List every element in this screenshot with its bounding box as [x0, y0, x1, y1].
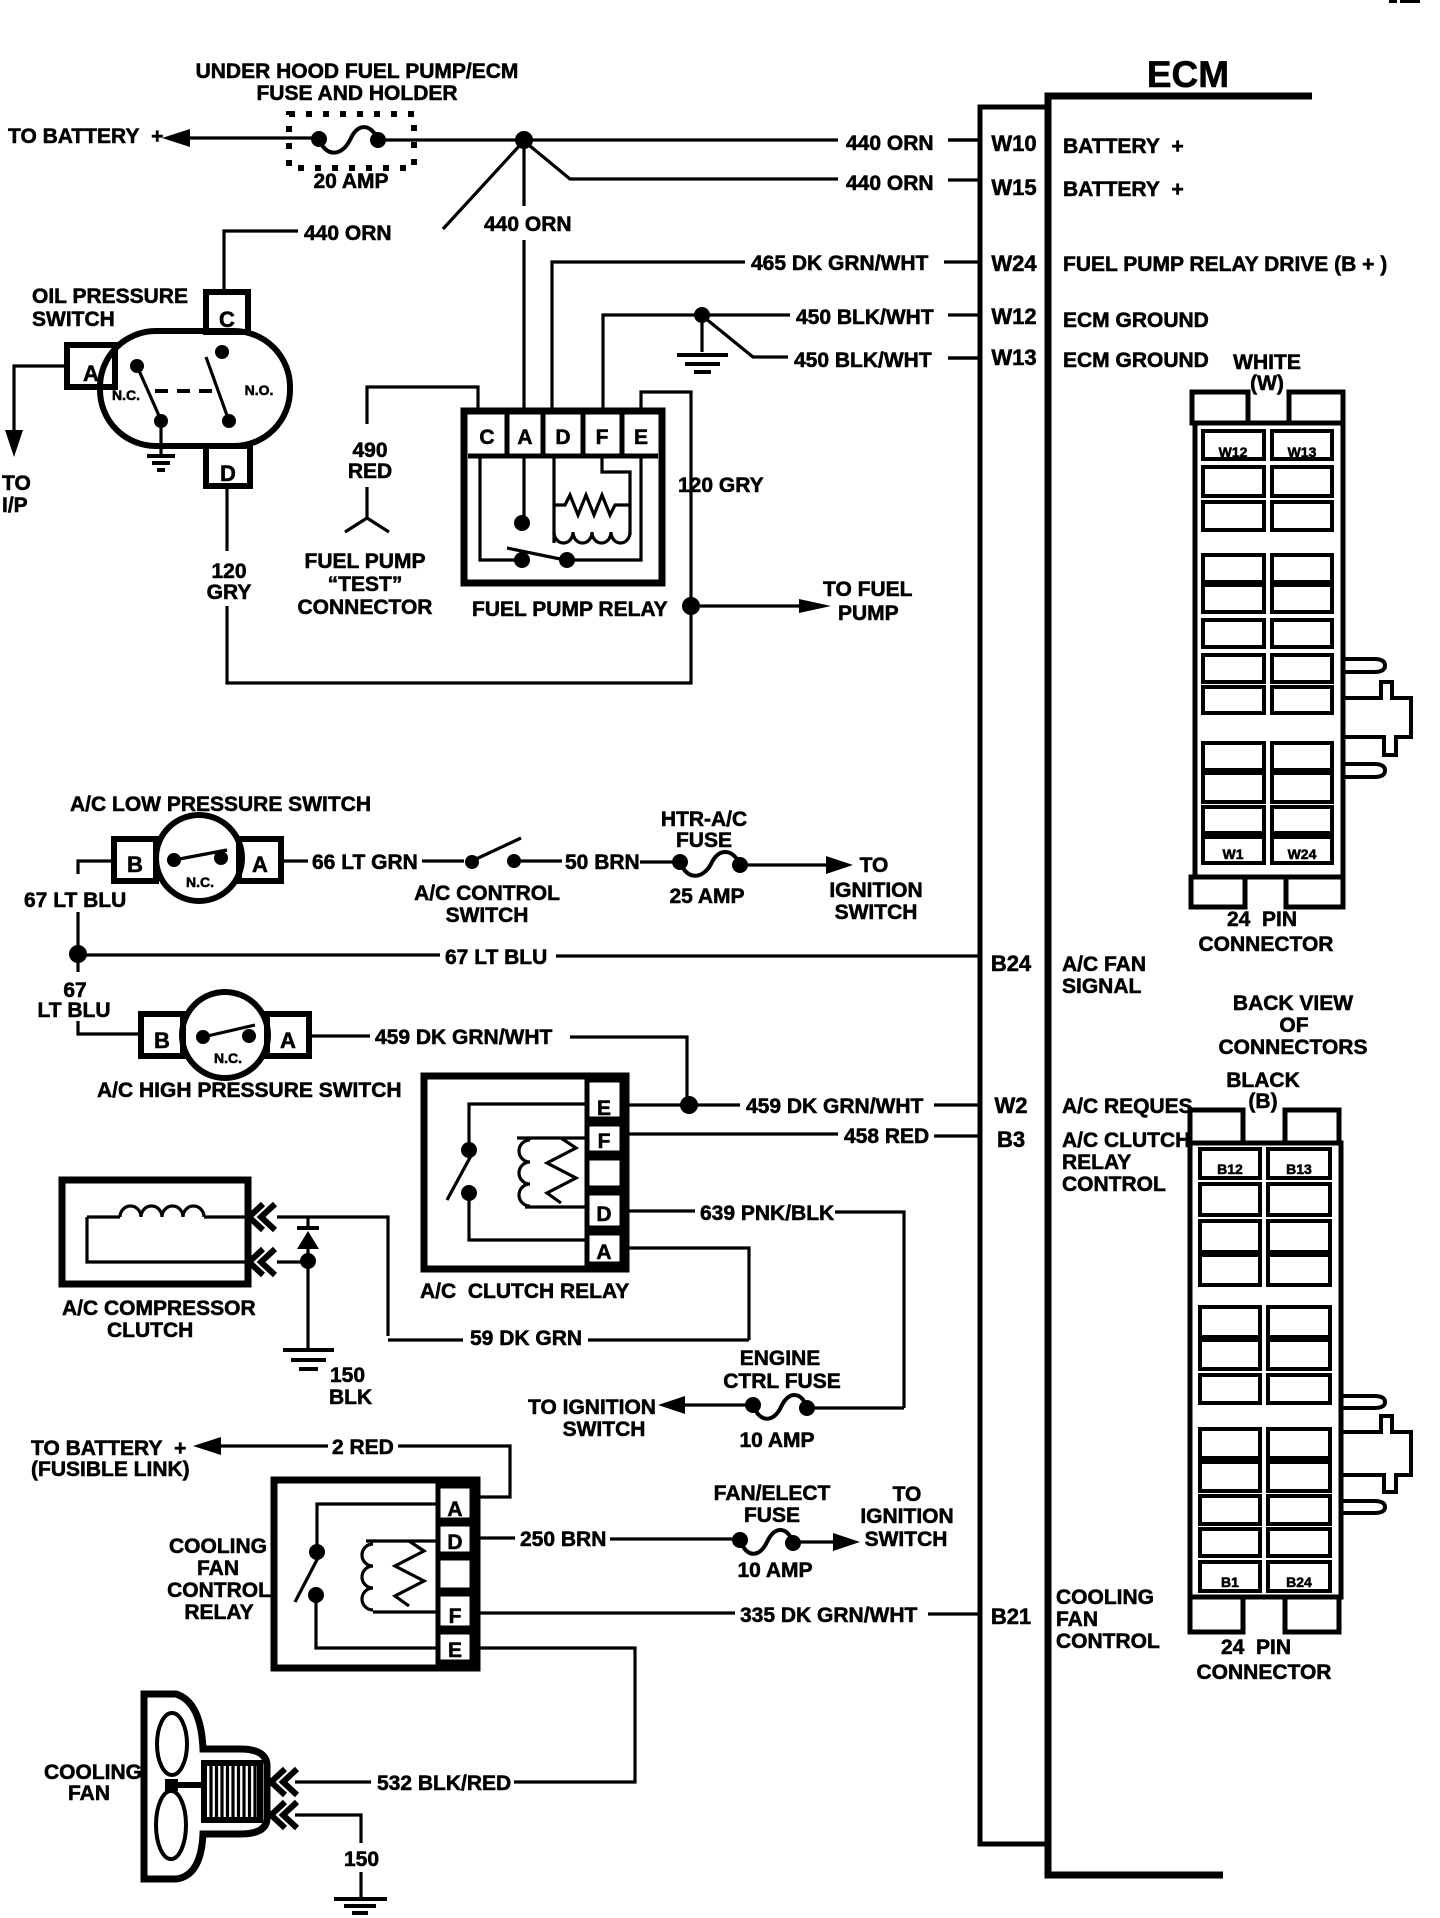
high switch terminal A: [267, 1014, 309, 1056]
svg-text:COOLING: COOLING: [44, 1761, 142, 1784]
wire 459 DK GRN/WHT from high switch A: [309, 1026, 687, 1098]
svg-text:A: A: [596, 1241, 611, 1264]
white connector pin W13 cell: [1272, 431, 1332, 460]
label 67 LT BLU (second): [37, 979, 110, 1022]
black connector empty cells: [1200, 1184, 1330, 1556]
svg-text:A/C CLUTCH: A/C CLUTCH: [1062, 1129, 1190, 1152]
svg-text:120: 120: [211, 560, 246, 583]
white connector pin W24 cell: [1272, 837, 1332, 863]
wire 532 BLK/RED from relay E: [295, 1648, 635, 1795]
svg-text:W1: W1: [1223, 846, 1244, 862]
wire 59 DK GRN from relay A: [388, 1248, 749, 1350]
svg-text:CLUTCH: CLUTCH: [107, 1319, 193, 1342]
svg-text:67 LT BLU: 67 LT BLU: [24, 889, 126, 912]
svg-text:ECM GROUND: ECM GROUND: [1063, 309, 1209, 332]
pin W2: [995, 1093, 1193, 1118]
svg-text:N.C.: N.C.: [214, 1050, 242, 1066]
svg-text:“TEST”: “TEST”: [328, 573, 403, 596]
white connector bottom tabs: [1191, 877, 1343, 907]
svg-text:B3: B3: [997, 1127, 1025, 1152]
svg-text:FUSE: FUSE: [744, 1504, 800, 1527]
black connector label: [1226, 1069, 1300, 1113]
A/C high pressure switch body: [182, 992, 268, 1078]
svg-text:B24: B24: [1286, 1574, 1312, 1590]
fan relay terminal A: [438, 1486, 472, 1521]
fan relay coil and resistor: [362, 1541, 438, 1612]
svg-text:CONTROL: CONTROL: [1056, 1630, 1160, 1653]
svg-text:SWITCH: SWITCH: [32, 308, 115, 331]
svg-text:335 DK GRN/WHT: 335 DK GRN/WHT: [740, 1604, 918, 1627]
ground G3: [334, 1899, 387, 1913]
svg-text:450 BLK/WHT: 450 BLK/WHT: [794, 349, 932, 372]
cooling fan blade upper: [157, 1713, 187, 1775]
A/C control switch: [414, 838, 562, 927]
svg-text:TO BATTERY +: TO BATTERY +: [8, 125, 163, 148]
wire 465 DK GRN/WHT relay D to W24: [552, 252, 929, 411]
node J6: [300, 1253, 316, 1269]
svg-text:E: E: [634, 426, 648, 449]
svg-text:ENGINE: ENGINE: [740, 1347, 821, 1370]
black connector pin B24 cell: [1268, 1562, 1330, 1591]
cooling fan hub: [165, 1779, 204, 1791]
svg-text:440 ORN: 440 ORN: [304, 222, 392, 245]
white connector top tabs: [1192, 392, 1343, 423]
fan relay terminal F: [438, 1594, 472, 1628]
A/C clutch relay terminal A: [587, 1233, 622, 1264]
svg-text:TO FUEL: TO FUEL: [823, 578, 913, 601]
svg-text:CTRL FUSE: CTRL FUSE: [723, 1370, 840, 1393]
svg-text:IGNITION: IGNITION: [860, 1505, 953, 1528]
wire 440 ORN branch to oil switch C: [224, 144, 521, 290]
oil switch terminal C: [206, 292, 248, 332]
A/C compressor clutch box: [62, 1180, 248, 1284]
pin B21: [991, 1586, 1160, 1653]
low switch terminal A: [239, 839, 281, 881]
svg-text:(B): (B): [1248, 1090, 1277, 1113]
svg-text:LT BLU: LT BLU: [37, 999, 110, 1022]
svg-text:W15: W15: [991, 175, 1036, 200]
svg-text:D: D: [596, 1203, 611, 1226]
white connector label: [1233, 351, 1301, 395]
svg-text:FUSE: FUSE: [676, 829, 732, 852]
wire 67 LT BLU to B24: [85, 946, 980, 969]
svg-text:E: E: [448, 1639, 462, 1662]
svg-text:150: 150: [344, 1848, 379, 1871]
black connector top tabs: [1190, 1110, 1339, 1143]
wire 440 ORN to W15: [524, 141, 934, 195]
svg-text:440 ORN: 440 ORN: [484, 213, 572, 236]
svg-text:FAN/ELECT: FAN/ELECT: [714, 1482, 831, 1505]
oil switch internal contacts: [112, 345, 273, 428]
svg-text:TO: TO: [2, 472, 31, 495]
svg-text:459 DK GRN/WHT: 459 DK GRN/WHT: [746, 1095, 924, 1118]
low switch contacts: [167, 850, 228, 890]
svg-text:B: B: [154, 1028, 170, 1053]
wire 335 DK GRN/WHT to B21: [472, 1604, 980, 1627]
svg-text:10 AMP: 10 AMP: [739, 1429, 814, 1452]
svg-text:GRY: GRY: [207, 581, 252, 604]
node J4 67 LT BLU: [69, 945, 87, 963]
black connector body: [1190, 1143, 1341, 1597]
pin W12: [948, 304, 1209, 332]
oil switch terminal A: [67, 345, 115, 387]
svg-text:B21: B21: [991, 1604, 1031, 1629]
svg-text:D: D: [220, 461, 236, 486]
black connector keyway: [1341, 1396, 1411, 1513]
svg-text:465 DK GRN/WHT: 465 DK GRN/WHT: [751, 252, 929, 275]
fan connector arrows bottom: [271, 1802, 297, 1828]
svg-text:TO BATTERY +: TO BATTERY +: [31, 1437, 186, 1460]
svg-text:20 AMP: 20 AMP: [313, 170, 388, 193]
wire 459 DK GRN/WHT to W2: [622, 1095, 980, 1118]
to I/P arrow: [2, 366, 67, 517]
to fuel pump arrow: [700, 578, 913, 625]
to ignition switch arrow (engine ctrl): [528, 1396, 746, 1441]
svg-text:W12: W12: [1219, 444, 1248, 460]
A/C compressor clutch label: [62, 1297, 256, 1342]
pin B3: [997, 1127, 1190, 1196]
svg-text:459 DK GRN/WHT: 459 DK GRN/WHT: [375, 1026, 553, 1049]
svg-text:59 DK GRN: 59 DK GRN: [470, 1327, 582, 1350]
svg-text:SWITCH: SWITCH: [865, 1528, 948, 1551]
oil switch internal ground: [147, 428, 175, 470]
back view of connectors label: [1219, 992, 1368, 1059]
A/C clutch relay terminal F: [587, 1124, 622, 1153]
cooling fan motor: [204, 1763, 260, 1820]
cooling fan label: [44, 1761, 142, 1805]
to ignition switch arrow (HTR): [748, 854, 923, 924]
svg-text:BATTERY +: BATTERY +: [1063, 135, 1184, 158]
svg-text:450 BLK/WHT: 450 BLK/WHT: [796, 306, 934, 329]
white connector pin W1 cell: [1203, 837, 1264, 863]
svg-text:CONTROL: CONTROL: [167, 1579, 271, 1602]
svg-text:A: A: [252, 852, 268, 877]
white connector keyway: [1341, 659, 1411, 777]
svg-text:SWITCH: SWITCH: [835, 901, 918, 924]
svg-text:FUEL PUMP: FUEL PUMP: [305, 550, 426, 573]
fan relay terminal D: [438, 1524, 472, 1554]
oil pressure switch body: [100, 331, 290, 446]
svg-text:W24: W24: [991, 251, 1037, 276]
svg-text:A: A: [447, 1498, 462, 1521]
fan connector arrows top: [271, 1769, 297, 1795]
svg-text:COOLING: COOLING: [1056, 1586, 1154, 1609]
svg-text:W2: W2: [995, 1093, 1028, 1118]
black connector pin B1 cell: [1200, 1562, 1260, 1591]
compressor clutch connector arrows top: [249, 1204, 275, 1230]
low switch terminal B: [114, 839, 156, 881]
relay internal switch: [480, 458, 641, 568]
svg-text:W10: W10: [991, 131, 1036, 156]
svg-text:RELAY: RELAY: [184, 1601, 253, 1624]
black connector caption: [1197, 1636, 1332, 1684]
wire 490 RED to relay C: [348, 387, 478, 483]
svg-text:A/C LOW PRESSURE SWITCH: A/C LOW PRESSURE SWITCH: [70, 793, 371, 816]
svg-text:N.O.: N.O.: [245, 382, 274, 398]
high switch terminal B: [141, 1014, 183, 1056]
svg-text:120 GRY: 120 GRY: [678, 474, 764, 497]
wire 450 BLK/WHT to W13: [705, 318, 980, 372]
svg-text:A: A: [280, 1028, 296, 1053]
fuse holder dotted box: [289, 114, 414, 168]
svg-text:67 LT BLU: 67 LT BLU: [445, 946, 547, 969]
svg-text:A/C CLUTCH RELAY: A/C CLUTCH RELAY: [420, 1280, 629, 1303]
A/C clutch relay coil and resistor: [517, 1138, 587, 1207]
svg-text:A/C COMPRESSOR: A/C COMPRESSOR: [62, 1297, 256, 1320]
to battery fusible link label: [31, 1437, 190, 1481]
wire 66 LT GRN: [281, 851, 464, 874]
diode D1: [297, 1217, 319, 1258]
page number mark: [1389, 0, 1420, 3]
svg-text:CONNECTORS: CONNECTORS: [1219, 1036, 1368, 1059]
A/C low pressure switch body: [156, 815, 242, 901]
svg-text:250 BRN: 250 BRN: [520, 1528, 606, 1551]
svg-text:TO IGNITION: TO IGNITION: [528, 1396, 656, 1419]
wire fuse to 639 vertical: [814, 1406, 904, 1409]
pin W24: [944, 251, 1387, 276]
compressor clutch connector arrows bottom: [249, 1249, 275, 1275]
wire 450 BLK/WHT relay F to W12: [603, 306, 934, 411]
svg-text:A: A: [83, 361, 99, 386]
svg-text:COOLING: COOLING: [169, 1535, 267, 1558]
svg-text:FUEL PUMP RELAY: FUEL PUMP RELAY: [472, 598, 668, 621]
svg-text:440 ORN: 440 ORN: [846, 132, 934, 155]
white connector caption: [1199, 908, 1334, 956]
fan relay switch: [295, 1504, 438, 1648]
svg-text:FAN: FAN: [1056, 1608, 1098, 1631]
svg-text:CONTROL: CONTROL: [1062, 1173, 1166, 1196]
fuel pump test connector: [298, 487, 433, 619]
svg-text:66 LT GRN: 66 LT GRN: [312, 851, 418, 874]
compressor clutch coil: [87, 1206, 248, 1262]
A/C clutch relay terminal D: [587, 1193, 622, 1228]
wire clutch top feed: [277, 1217, 388, 1336]
svg-text:(W): (W): [1250, 372, 1284, 395]
white connector pin W12 cell: [1203, 431, 1264, 460]
pin B24: [991, 951, 1146, 998]
node J2 fuel pump tap: [682, 597, 700, 615]
A/C clutch relay terminal E: [587, 1080, 622, 1120]
svg-text:BACK VIEW: BACK VIEW: [1233, 992, 1353, 1015]
svg-text:D: D: [555, 426, 570, 449]
svg-text:N.C.: N.C.: [186, 874, 214, 890]
node J5 459 tap: [680, 1096, 698, 1114]
ECM pin column: [980, 107, 1048, 1844]
svg-text:BLACK: BLACK: [1226, 1069, 1300, 1092]
svg-text:FUEL PUMP RELAY DRIVE (B + ): FUEL PUMP RELAY DRIVE (B + ): [1063, 253, 1387, 276]
svg-text:A/C HIGH PRESSURE SWITCH: A/C HIGH PRESSURE SWITCH: [97, 1079, 402, 1102]
svg-text:CONNECTOR: CONNECTOR: [298, 596, 433, 619]
svg-text:FUSE AND HOLDER: FUSE AND HOLDER: [256, 82, 457, 105]
svg-text:HTR-A/C: HTR-A/C: [661, 808, 747, 831]
svg-text:25 AMP: 25 AMP: [669, 885, 744, 908]
svg-text:CONNECTOR: CONNECTOR: [1197, 1661, 1332, 1684]
svg-text:SIGNAL: SIGNAL: [1062, 975, 1142, 998]
svg-text:I/P: I/P: [2, 494, 28, 517]
svg-text:OIL PRESSURE: OIL PRESSURE: [32, 285, 188, 308]
pin W15: [948, 175, 1184, 201]
svg-text:50 BRN: 50 BRN: [565, 851, 640, 874]
svg-text:B1: B1: [1221, 1574, 1239, 1590]
cooling fan blade lower: [156, 1791, 186, 1859]
fuel pump relay box: [464, 411, 662, 583]
high switch contacts: [196, 1025, 256, 1066]
svg-text:W13: W13: [991, 345, 1036, 370]
HTR-A/C fuse: [661, 808, 748, 908]
to battery + arrow: [8, 125, 312, 148]
svg-text:C: C: [479, 426, 494, 449]
svg-text:RELAY: RELAY: [1062, 1151, 1131, 1174]
fuel pump relay terminal strip: [468, 454, 658, 459]
svg-text:W24: W24: [1288, 846, 1317, 862]
wire 50 BRN: [565, 851, 674, 874]
svg-text:CONNECTOR: CONNECTOR: [1199, 933, 1334, 956]
svg-text:FAN: FAN: [68, 1782, 110, 1805]
svg-text:24 PIN: 24 PIN: [1227, 908, 1297, 931]
svg-text:IGNITION: IGNITION: [829, 879, 922, 902]
svg-text:C: C: [219, 307, 235, 332]
fan relay blank terminal: [438, 1558, 472, 1590]
A/C clutch relay blank terminal: [587, 1158, 622, 1188]
relay coil and resistor: [554, 458, 630, 543]
svg-text:F: F: [449, 1605, 462, 1628]
svg-text:458 RED: 458 RED: [844, 1125, 929, 1148]
svg-text:WHITE: WHITE: [1233, 351, 1301, 374]
engine ctrl fuse: [723, 1347, 840, 1452]
svg-text:N.C.: N.C.: [112, 387, 140, 403]
svg-text:532 BLK/RED: 532 BLK/RED: [377, 1772, 511, 1795]
wire 150 to ground: [295, 1815, 379, 1897]
wire 250 BRN: [472, 1528, 734, 1551]
ground G2 150 BLK: [283, 1261, 372, 1409]
svg-text:2 RED: 2 RED: [332, 1436, 394, 1459]
pin W10: [948, 131, 1184, 158]
svg-text:W12: W12: [991, 304, 1036, 329]
svg-text:F: F: [598, 1130, 611, 1153]
svg-text:B24: B24: [991, 951, 1032, 976]
svg-text:B: B: [127, 852, 143, 877]
svg-text:TO: TO: [893, 1483, 922, 1506]
node J1: [515, 131, 533, 149]
A/C clutch relay box: [424, 1076, 626, 1269]
wire clutch bottom to ground: [277, 1260, 303, 1263]
wire 120 GRY relay E hook: [641, 392, 764, 602]
cooling fan housing: [144, 1694, 267, 1879]
svg-text:150: 150: [330, 1364, 365, 1387]
svg-text:TO: TO: [860, 854, 889, 877]
svg-text:490: 490: [352, 439, 387, 462]
ground G1: [677, 315, 728, 372]
svg-text:ECM: ECM: [1147, 54, 1229, 95]
wire 67 LT BLU to high switch B: [78, 1021, 141, 1034]
wire 440 ORN to W10: [524, 132, 980, 155]
black connector pin B12 cell: [1200, 1149, 1260, 1178]
svg-text:10 AMP: 10 AMP: [737, 1559, 812, 1582]
svg-text:OF: OF: [1279, 1014, 1308, 1037]
svg-text:24 PIN: 24 PIN: [1221, 1636, 1291, 1659]
svg-text:D: D: [447, 1531, 462, 1554]
to ignition switch arrow (fan fuse): [800, 1483, 954, 1551]
ECM module boundary: [1048, 96, 1312, 1875]
svg-text:BLK: BLK: [329, 1386, 372, 1409]
wire 458 RED to B3: [622, 1125, 980, 1148]
cooling fan control relay label: [167, 1535, 271, 1624]
fuse F1 20 AMP: [311, 127, 389, 193]
svg-text:A/C FAN: A/C FAN: [1062, 953, 1146, 976]
svg-text:(FUSIBLE LINK): (FUSIBLE LINK): [31, 1458, 190, 1481]
svg-text:F: F: [596, 426, 609, 449]
svg-text:BATTERY +: BATTERY +: [1063, 178, 1184, 201]
svg-text:ECM GROUND: ECM GROUND: [1063, 349, 1209, 372]
black connector pin B13 cell: [1268, 1149, 1330, 1178]
A/C clutch relay switch: [447, 1104, 587, 1240]
svg-text:A: A: [517, 426, 532, 449]
svg-text:FAN: FAN: [197, 1557, 239, 1580]
svg-text:A/C REQUES: A/C REQUES: [1062, 1095, 1193, 1118]
svg-text:639 PNK/BLK: 639 PNK/BLK: [700, 1202, 834, 1225]
svg-text:B12: B12: [1217, 1161, 1243, 1177]
wire 639 PNK/BLK: [622, 1202, 904, 1408]
svg-text:W13: W13: [1288, 444, 1317, 460]
svg-text:E: E: [597, 1097, 611, 1120]
svg-text:SWITCH: SWITCH: [563, 1418, 646, 1441]
black connector bottom tabs: [1190, 1597, 1339, 1632]
wire 2 RED: [193, 1436, 510, 1497]
white connector empty cells: [1203, 467, 1332, 833]
svg-text:PUMP: PUMP: [838, 602, 899, 625]
wire fuse to node: [385, 138, 524, 141]
white connector body: [1195, 423, 1343, 877]
svg-text:A/C CONTROL: A/C CONTROL: [414, 882, 560, 905]
fan/elect fuse: [714, 1482, 831, 1582]
wire 67 LT BLU low switch B down: [24, 861, 126, 972]
fan relay terminal E: [438, 1632, 472, 1662]
svg-text:UNDER HOOD FUEL PUMP/ECM: UNDER HOOD FUEL PUMP/ECM: [196, 60, 519, 83]
pin W13: [948, 345, 1209, 372]
cooling fan control relay box: [274, 1480, 477, 1668]
oil switch terminal D: [206, 446, 250, 486]
node J3 ground tap: [694, 307, 710, 323]
svg-text:RED: RED: [348, 460, 392, 483]
wire 120 GRY oil switch D down: [207, 486, 691, 683]
svg-text:SWITCH: SWITCH: [446, 904, 529, 927]
svg-text:B13: B13: [1286, 1161, 1312, 1177]
wire node down to relay A: [522, 146, 525, 412]
svg-text:440 ORN: 440 ORN: [846, 172, 934, 195]
